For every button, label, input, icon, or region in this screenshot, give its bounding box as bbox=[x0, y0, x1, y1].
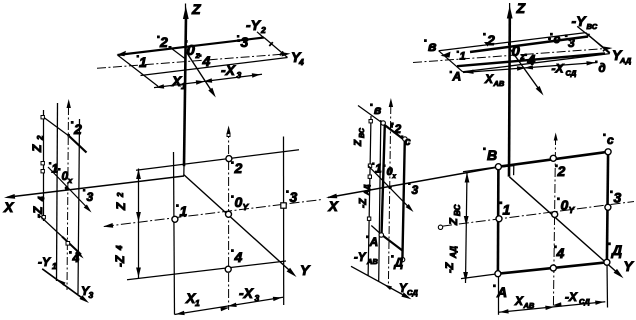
label 0x plane W right bbox=[383, 164, 386, 167]
label 4 epure right bbox=[554, 245, 557, 248]
plane H right parallelogram bbox=[439, 33, 610, 72]
plane H right dimension -Y_BC ticks bbox=[577, 26, 610, 52]
svg-text:Z: Z bbox=[30, 144, 44, 153]
plane W left vertical s2 bbox=[57, 103, 58, 281]
svg-text:x: x bbox=[67, 176, 73, 185]
svg-text:в: в bbox=[428, 38, 437, 54]
axis X left with arrowhead bbox=[4, 176, 184, 199]
point 1 epure right bbox=[496, 216, 502, 222]
svg-text:2: 2 bbox=[234, 160, 243, 176]
svg-text:3: 3 bbox=[89, 290, 94, 300]
epure right thick edge BC bbox=[498, 152, 608, 167]
svg-text:А: А bbox=[452, 70, 462, 84]
svg-text:АД: АД bbox=[364, 185, 371, 196]
epure left vertical through point 1 bbox=[174, 152, 175, 315]
epure left line through point 2 bbox=[136, 150, 299, 171]
svg-text:-X: -X bbox=[239, 285, 255, 301]
plane W right axis vertical dash-dot with top arrow bbox=[388, 98, 393, 285]
point 3' tick and marker bbox=[237, 35, 240, 42]
point 3'' tick and label plane W bbox=[83, 189, 86, 192]
svg-text:3: 3 bbox=[255, 293, 260, 303]
svg-text:В: В bbox=[487, 147, 497, 163]
plane W left axis vertical dash-dot with top arrow bbox=[67, 99, 71, 290]
point 4'' tick and label plane W bbox=[69, 251, 72, 254]
label b'' plane W right bbox=[370, 103, 373, 106]
plane W right thick left vertical b''a'' bbox=[382, 125, 385, 236]
label 3 epure right bbox=[610, 190, 613, 193]
svg-text:X: X bbox=[3, 199, 15, 215]
svg-text:ВС: ВС bbox=[359, 127, 366, 138]
label point 4 epure left bbox=[231, 249, 234, 252]
plane H left dimension -Y2 ticks bbox=[257, 32, 283, 56]
svg-text:-Y: -Y bbox=[572, 13, 588, 29]
svg-text:Z: Z bbox=[114, 202, 128, 211]
svg-text:-X: -X bbox=[565, 290, 578, 304]
point 1 epure left bbox=[172, 216, 178, 222]
epure left vertical through point 3 bbox=[283, 137, 285, 306]
label 1'' plane W right bbox=[372, 162, 375, 165]
plane W right bottom edge a''d'' bbox=[371, 226, 403, 252]
label point 2 epure left bbox=[231, 161, 234, 164]
label C epure right bbox=[603, 133, 606, 136]
plane W left vertical s1 bbox=[43, 110, 45, 221]
svg-text:1: 1 bbox=[181, 81, 186, 91]
arrow Y3 direction from 3'' bbox=[48, 167, 92, 213]
point 0 epure right bbox=[552, 211, 558, 217]
svg-text:-Z: -Z bbox=[444, 261, 456, 273]
plane H left parallelogram bbox=[117, 38, 288, 87]
svg-text:Z: Z bbox=[516, 0, 526, 16]
svg-text:2: 2 bbox=[557, 163, 566, 179]
label 2'' plane W right bbox=[391, 122, 394, 125]
epure right extension bottom to A bbox=[461, 274, 498, 279]
svg-text:д: д bbox=[599, 63, 606, 75]
svg-text:СД: СД bbox=[579, 297, 590, 306]
svg-text:1: 1 bbox=[180, 203, 188, 219]
svg-text:Z: Z bbox=[353, 139, 364, 147]
plane W right thin vertical bbox=[379, 120, 381, 281]
plane W right thick right vertical c''d'' bbox=[402, 140, 404, 260]
epure right extension top to B bbox=[463, 167, 498, 172]
svg-text:А: А bbox=[496, 284, 507, 300]
point 2'' tick and label plane W bbox=[71, 121, 74, 124]
point 4 epure right bbox=[550, 265, 556, 271]
point c'' marker bbox=[403, 137, 407, 141]
svg-text:ВС: ВС bbox=[453, 204, 462, 216]
svg-text:X: X bbox=[328, 198, 340, 214]
point 3' tick and label plane H right bbox=[565, 34, 568, 37]
label point 0Y epure left bbox=[231, 195, 234, 198]
point 0z tick and label plane H right bbox=[508, 42, 511, 45]
svg-text:4: 4 bbox=[234, 249, 243, 265]
point b'' marker bbox=[381, 121, 385, 125]
svg-text:1: 1 bbox=[195, 298, 200, 308]
svg-text:в: в bbox=[374, 103, 381, 117]
label point 1 epure left bbox=[176, 204, 179, 207]
point d' tick and label plane H right bbox=[595, 61, 598, 64]
epure right thick edge CD bbox=[607, 152, 608, 262]
svg-text:3: 3 bbox=[241, 34, 249, 50]
point 0x tick and label plane W bbox=[58, 168, 61, 171]
label point 3 epure left bbox=[286, 190, 289, 193]
label A epure right bbox=[493, 284, 496, 287]
plane H right pictorial axis Y arrow bbox=[510, 49, 544, 96]
svg-text:Z: Z bbox=[448, 217, 460, 226]
svg-text:3: 3 bbox=[290, 189, 298, 205]
svg-text:0: 0 bbox=[187, 42, 196, 59]
svg-text:0: 0 bbox=[512, 43, 521, 60]
epure left axis 1-0-3 dash-dot with left arrow bbox=[103, 200, 322, 228]
axis Z left (thick) with arrowhead bbox=[183, 4, 189, 177]
svg-text:2: 2 bbox=[36, 135, 45, 141]
axis Y epure right diagonal with arrow bbox=[509, 177, 623, 278]
epure left line through point 4 bbox=[127, 261, 286, 280]
plane H left axis Y4 dash-dot with arrow bbox=[97, 52, 291, 68]
svg-text:0: 0 bbox=[235, 194, 243, 210]
svg-text:-Z: -Z bbox=[113, 255, 127, 267]
svg-text:АВ: АВ bbox=[366, 257, 378, 266]
svg-text:4: 4 bbox=[556, 245, 565, 261]
svg-text:-Z: -Z bbox=[358, 198, 369, 208]
point B epure right bbox=[495, 164, 501, 170]
svg-text:ВС: ВС bbox=[587, 22, 598, 31]
point 4' tick and label plane H right bbox=[525, 54, 528, 57]
svg-text:с: с bbox=[405, 136, 411, 148]
epure right thick edge AB bbox=[497, 167, 500, 274]
point a'' marker bbox=[379, 233, 383, 237]
svg-text:z: z bbox=[195, 50, 201, 60]
svg-text:3: 3 bbox=[568, 36, 575, 50]
svg-text:2: 2 bbox=[116, 192, 125, 198]
arrow Y direction from 3'' plane W right bbox=[368, 166, 414, 213]
epure left vertical dash-dot through 2-0-4 with top arrow bbox=[227, 126, 231, 311]
epure right corner box at B bbox=[498, 166, 513, 176]
plane W right top edge b''c'' bbox=[358, 106, 405, 141]
plane W left vertical s4 bbox=[78, 119, 80, 294]
plane W left diagonal through 4'' with arrow and marker bbox=[40, 216, 84, 259]
plane H left pictorial axis Y arrow bbox=[186, 52, 216, 98]
svg-text:4: 4 bbox=[527, 52, 536, 68]
svg-text:X: X bbox=[514, 294, 524, 308]
svg-text:3: 3 bbox=[87, 190, 94, 204]
point 1' tick and label bbox=[137, 55, 140, 58]
point d'' marker bbox=[400, 257, 404, 261]
point 0x marker on axis X right bbox=[388, 186, 392, 190]
epure left bottom dimension line X1 -X3 bbox=[175, 297, 284, 315]
axis X right with arrowhead bbox=[326, 167, 498, 198]
plane W right bottom diagonal with arrows bbox=[351, 266, 411, 299]
label d'' plane W right bbox=[391, 255, 394, 258]
svg-text:1: 1 bbox=[52, 261, 57, 271]
svg-text:СД: СД bbox=[566, 69, 577, 78]
point D epure right bbox=[604, 259, 610, 265]
svg-text:АД: АД bbox=[619, 56, 632, 65]
plane H left dimension line X1 -X3 bbox=[154, 73, 262, 88]
svg-text:2: 2 bbox=[73, 121, 82, 137]
point 2' tick marker plane H right bbox=[483, 33, 491, 47]
label 2 epure right bbox=[555, 164, 558, 167]
point 0x marker on axis X bbox=[65, 186, 69, 190]
point 0z tick and label bbox=[185, 40, 188, 43]
svg-text:3: 3 bbox=[614, 190, 622, 206]
svg-text:4: 4 bbox=[298, 57, 304, 67]
svg-text:X: X bbox=[484, 72, 494, 86]
plane H right thick projection segment a'd' bbox=[457, 54, 605, 67]
svg-text:4: 4 bbox=[72, 251, 80, 265]
svg-text:АД: АД bbox=[449, 246, 458, 259]
label D epure right bbox=[608, 242, 611, 245]
svg-text:-Y: -Y bbox=[38, 255, 51, 269]
svg-text:с: с bbox=[554, 32, 561, 46]
svg-text:4: 4 bbox=[202, 53, 211, 69]
svg-text:0: 0 bbox=[561, 197, 569, 213]
label a'' plane W right bbox=[366, 235, 369, 238]
epure left dimension column Z2 -Z4 bbox=[136, 169, 141, 279]
svg-text:-X: -X bbox=[221, 62, 237, 78]
plane W left bottom diagonal with arrows bbox=[42, 269, 89, 303]
point 2 epure right bbox=[550, 155, 556, 161]
epure right bottom dimension line X_AB -X_CD with extensions bbox=[499, 263, 608, 315]
svg-text:x: x bbox=[392, 174, 397, 180]
epure right dimension column Z_BC -Z_AD bbox=[463, 172, 469, 283]
svg-text:2: 2 bbox=[394, 122, 402, 136]
svg-text:-Y: -Y bbox=[354, 252, 367, 264]
point 2' tick, marker and connector bbox=[157, 36, 185, 59]
label 1 epure right bbox=[500, 201, 503, 204]
svg-text:1: 1 bbox=[460, 51, 466, 63]
plane H right axis Y_AD dash-dot with arrow bbox=[413, 47, 613, 63]
point 2 epure left bbox=[226, 156, 232, 162]
svg-text:Д: Д bbox=[394, 256, 404, 270]
plane H right thick projection segment b'c' bbox=[470, 37, 588, 53]
label 3'' plane W right bbox=[408, 182, 411, 185]
plane W left top edge diagonal through 2'' bbox=[44, 117, 87, 152]
label 0Y epure right bbox=[557, 197, 560, 200]
point 0 epure left bbox=[226, 211, 232, 217]
point b' tick and label plane H right bbox=[424, 39, 427, 42]
point 4' tick and label bbox=[199, 54, 202, 57]
point a' tick and label plane H right bbox=[450, 71, 453, 74]
label c'' plane W right bbox=[401, 135, 404, 138]
epure right thick edge AD bbox=[498, 262, 607, 273]
point 2'' marker plane W right bbox=[390, 125, 393, 128]
svg-text:АВ: АВ bbox=[523, 301, 535, 310]
svg-text:-Y: -Y bbox=[246, 17, 262, 33]
point 4 epure left bbox=[225, 266, 231, 272]
svg-text:АВ: АВ bbox=[493, 79, 505, 88]
dimension squares on s1 bbox=[41, 116, 45, 219]
svg-text:2: 2 bbox=[260, 25, 266, 35]
svg-text:СД: СД bbox=[407, 288, 418, 297]
svg-text:3: 3 bbox=[237, 70, 242, 80]
plane H right dimension line X_AB -X_CD bbox=[463, 61, 597, 74]
svg-text:1: 1 bbox=[503, 202, 511, 218]
point 1' tick and label plane H right bbox=[457, 51, 460, 54]
svg-text:Z: Z bbox=[191, 1, 201, 17]
axis Y epure left diagonal with arrow bbox=[184, 175, 297, 278]
svg-text:-X: -X bbox=[552, 62, 565, 76]
svg-text:Д: Д bbox=[611, 242, 622, 258]
point 1'' tick and label bbox=[49, 162, 52, 165]
svg-text:2: 2 bbox=[159, 34, 168, 50]
svg-text:с: с bbox=[607, 133, 614, 147]
point A epure right bbox=[495, 271, 501, 277]
epure right axis 1-0-3 dash-dot with left arrow bbox=[438, 202, 634, 230]
svg-text:3: 3 bbox=[412, 183, 419, 197]
point 3 epure left square marker bbox=[281, 203, 286, 208]
svg-text:4: 4 bbox=[115, 245, 124, 251]
epure right vertical dash through 2-0-4 with top arrow bbox=[553, 133, 557, 308]
point 3 epure right bbox=[605, 204, 611, 210]
label B epure right bbox=[483, 147, 486, 150]
svg-text:2: 2 bbox=[486, 32, 495, 48]
svg-text:1: 1 bbox=[139, 54, 147, 70]
svg-text:4: 4 bbox=[37, 196, 46, 202]
svg-text:А: А bbox=[369, 235, 379, 249]
point c' tick marker and label plane H right bbox=[548, 33, 553, 41]
svg-text:-Z: -Z bbox=[31, 206, 45, 218]
point C epure right bbox=[605, 149, 611, 155]
axis Z right (thick) with arrowhead bbox=[507, 3, 513, 177]
plane W right dimension line with squares bbox=[367, 116, 372, 276]
